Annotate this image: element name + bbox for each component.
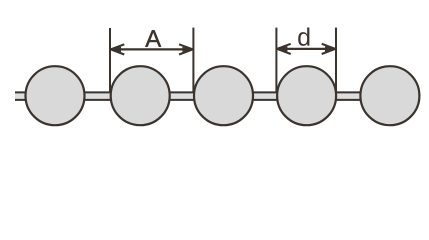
wire rod fill — [15, 92, 390, 100]
dimension line d — [277, 48, 335, 50]
atom circle 4 — [277, 66, 336, 125]
label A — [145, 30, 161, 47]
extension line A-right — [192, 28, 194, 92]
dimension line A — [111, 48, 192, 50]
label d — [298, 27, 309, 45]
atom circle 1 — [26, 66, 85, 125]
arrowhead d-left — [277, 44, 291, 54]
extension line A-left — [109, 28, 111, 92]
arrowhead d-right — [322, 44, 336, 54]
extension line d-left — [275, 28, 277, 92]
wire rod bottom line — [15, 99, 390, 101]
wire rod top line — [15, 91, 390, 93]
atom circle 5 — [360, 66, 419, 125]
atom circle 3 — [194, 66, 253, 125]
arrowhead A-left — [111, 44, 125, 54]
arrowhead A-right — [179, 44, 193, 54]
atom circle 2 — [111, 66, 170, 125]
extension line d-right — [335, 28, 337, 92]
